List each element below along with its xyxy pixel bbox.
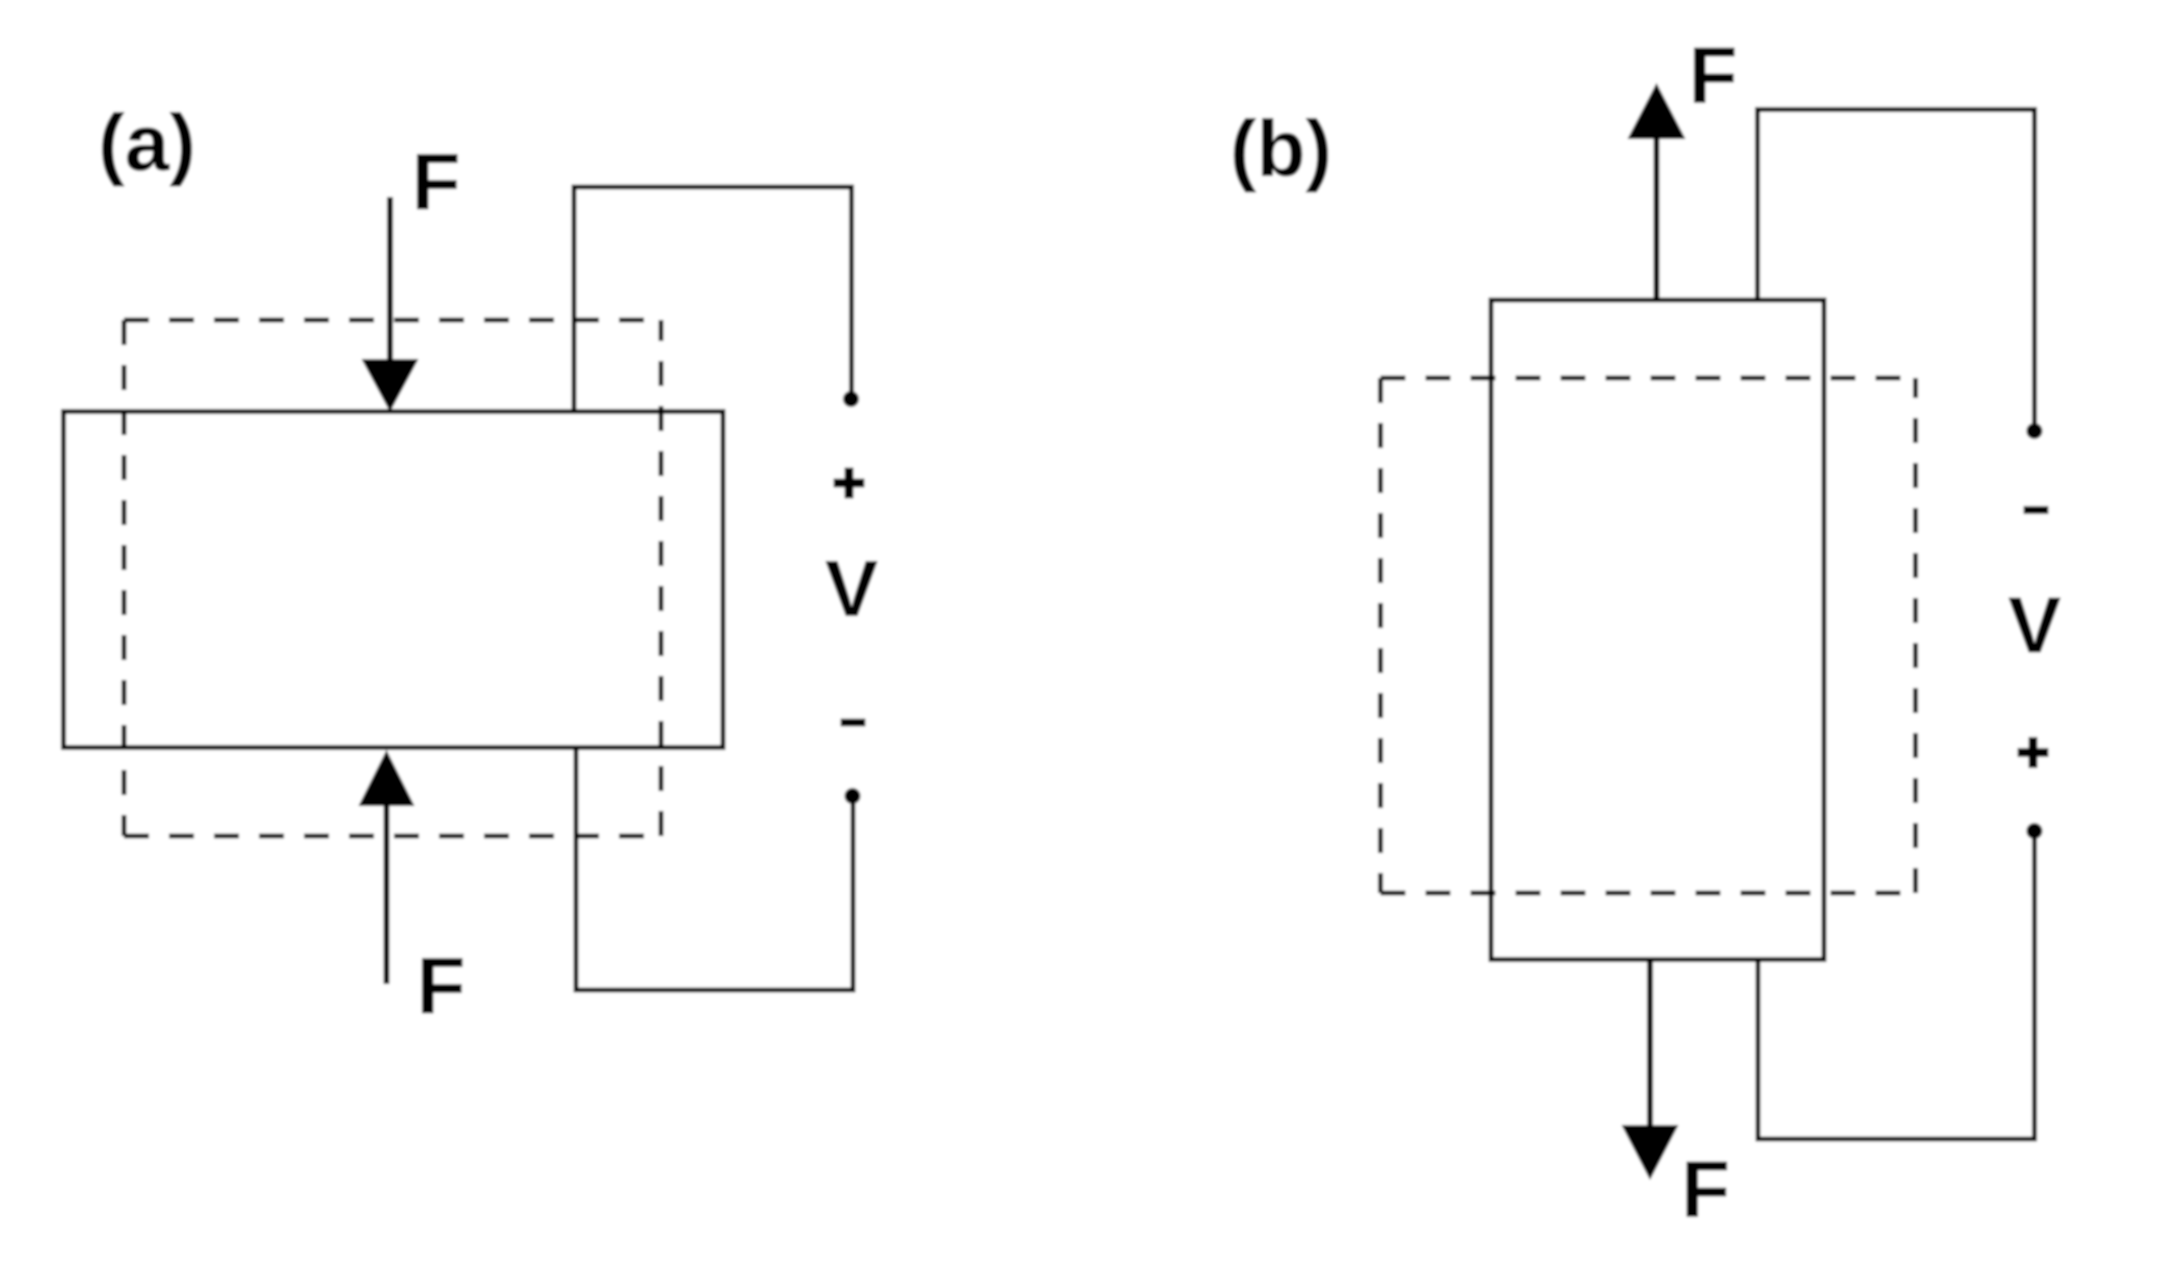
- svg-text:F: F: [1689, 31, 1738, 120]
- svg-text:F: F: [1681, 1145, 1730, 1234]
- svg-text:V: V: [2008, 581, 2061, 670]
- svg-text:V: V: [825, 544, 878, 633]
- svg-text:F: F: [417, 941, 466, 1030]
- svg-text:F: F: [412, 137, 461, 226]
- svg-text:(a): (a): [98, 98, 196, 187]
- svg-text:(b): (b): [1230, 104, 1332, 193]
